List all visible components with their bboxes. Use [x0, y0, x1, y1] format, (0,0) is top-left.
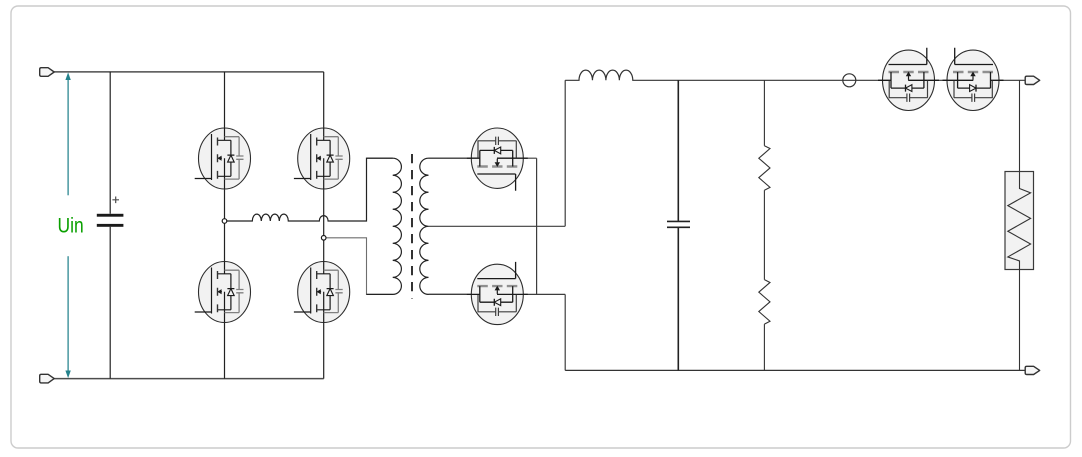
- wire center tap riser to output inductor: [564, 80, 566, 226]
- transistor Q4 bridge lower right: [294, 262, 350, 323]
- wire input capacitor branch: [109, 72, 111, 379]
- wire secondary bottom tap to Q6: [429, 293, 566, 295]
- resistor R1 divider upper: [759, 146, 770, 191]
- wire output voltage divider branch: [763, 80, 765, 370]
- transformer T1 core (dashed): [411, 154, 413, 299]
- wire bridge midpoint with inductor L1 and crossover hop: [227, 158, 393, 221]
- output terminal P3 top right: [1025, 76, 1040, 84]
- transistor Q3 bridge lower left: [195, 262, 251, 323]
- wire bottom rail primary: [54, 378, 324, 380]
- input terminal P1 top left: [40, 68, 55, 77]
- wire top rail primary: [54, 71, 324, 73]
- transformer T1 primary winding: [367, 158, 402, 294]
- voltage arrow Uin (teal, double headed): [65, 72, 70, 378]
- wire right midpoint to transformer primary bottom: [326, 238, 393, 295]
- transistor Q6 synchronous rectifier bottom: [467, 262, 528, 325]
- transistor Q2 bridge upper right: [294, 128, 350, 189]
- wire bridge right leg: [323, 72, 325, 379]
- capacitor C1 electrolytic input: [97, 197, 124, 227]
- resistor R3 load (boxed): [1005, 80, 1034, 370]
- wire secondary return riser to bottom rail: [564, 294, 566, 370]
- wire joining Q5 and Q6 outputs: [536, 158, 538, 294]
- wire secondary top tap to Q5: [429, 157, 537, 159]
- wire bridge left leg: [224, 72, 226, 379]
- capacitor C2 output filter: [667, 80, 690, 370]
- resistor R2 divider lower: [759, 280, 770, 325]
- node A bridge left midpoint: [222, 219, 227, 224]
- transistor Q8 load switch right: [943, 48, 1004, 111]
- wire secondary center tap: [429, 225, 566, 227]
- node B bridge right midpoint: [321, 236, 326, 241]
- transistor Q5 synchronous rectifier top: [467, 128, 528, 191]
- input terminal P2 bottom left: [40, 374, 55, 383]
- node C probe circle on output rail: [843, 74, 856, 87]
- transistor Q1 bridge upper left: [195, 128, 251, 189]
- wire secondary bottom rail: [565, 369, 1025, 371]
- wire secondary top rail with output inductor L2: [565, 70, 1025, 80]
- transistor Q7 load switch left: [878, 48, 939, 111]
- transformer T1 secondary winding: [420, 158, 467, 294]
- svg-text:Uin: Uin: [58, 215, 84, 238]
- output terminal P4 bottom right: [1025, 366, 1040, 374]
